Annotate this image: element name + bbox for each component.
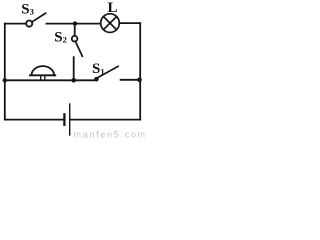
lamp L (101, 14, 120, 33)
wire middle right segment (121, 79, 141, 81)
node junction top (S2 branch) (73, 21, 77, 25)
switch S1 (94, 66, 118, 81)
wire top left segment (5, 23, 26, 25)
node junction left middle (3, 78, 7, 82)
wire right vertical (139, 23, 141, 120)
switch S3 (26, 13, 45, 27)
svg-text:manfen5.com: manfen5.com (74, 130, 147, 140)
wire bottom left segment (5, 119, 64, 121)
wire left vertical (4, 24, 6, 120)
switch S2 (72, 25, 83, 79)
wire top middle segment (47, 23, 101, 25)
wire middle horizontal (5, 79, 95, 81)
bell (30, 66, 55, 80)
svg-text:L: L (108, 0, 118, 16)
wire bottom right segment (71, 119, 141, 121)
node junction S2 bottom (71, 78, 76, 83)
battery (64, 104, 69, 135)
wire top right segment (119, 22, 140, 24)
node junction right middle (137, 78, 142, 83)
